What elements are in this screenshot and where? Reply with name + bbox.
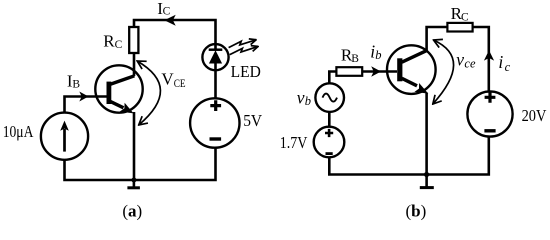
svg-text:b: b [375, 48, 381, 62]
svg-text:v: v [456, 50, 464, 70]
svg-text:c: c [505, 60, 511, 74]
svg-text:CE: CE [174, 78, 186, 90]
svg-text:v: v [297, 87, 305, 107]
svg-text:b: b [305, 94, 311, 108]
svg-text:20V: 20V [522, 106, 547, 125]
svg-text:i: i [498, 52, 503, 72]
svg-text:1.7V: 1.7V [280, 133, 308, 152]
svg-text:B: B [72, 79, 80, 91]
svg-text:B: B [351, 53, 359, 65]
svg-text:C: C [115, 39, 123, 51]
svg-text:C: C [163, 6, 171, 18]
svg-text:V: V [161, 69, 174, 88]
svg-text:5V: 5V [243, 111, 263, 130]
svg-text:(b): (b) [405, 201, 426, 220]
svg-text:10μA: 10μA [3, 122, 34, 141]
svg-text:LED: LED [231, 62, 261, 81]
svg-text:C: C [461, 11, 469, 23]
svg-text:ce: ce [464, 56, 476, 70]
svg-text:R: R [103, 31, 115, 50]
svg-text:(a): (a) [122, 201, 142, 220]
